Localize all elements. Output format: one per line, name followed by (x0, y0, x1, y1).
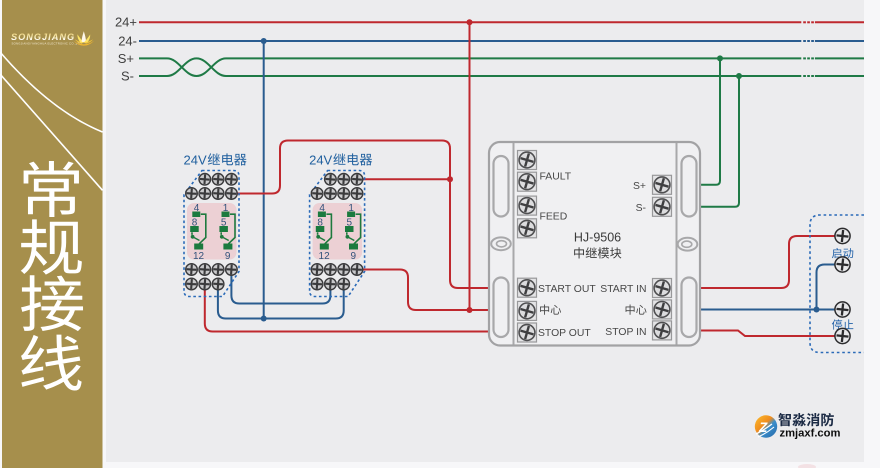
cable continuation break on 24- rail (801, 39, 815, 43)
svg-text:S-: S- (636, 203, 646, 214)
K1 pin 9 pad (223, 244, 232, 250)
U1 terminal STOP OUT (518, 323, 537, 342)
svg-text:STOP IN: STOP IN (605, 327, 646, 338)
svg-text:SONGJIANG: SONGJIANG (11, 32, 75, 42)
svg-text:S+: S+ (118, 51, 134, 66)
K2 top terminal row 2 (311, 188, 363, 200)
svg-text:SONGJIANG/YANGHUA ELECTRONIC C: SONGJIANG/YANGHUA ELECTRONIC CO.,LTD (12, 42, 82, 46)
svg-text:HJ-9506: HJ-9506 (574, 231, 621, 245)
button box dashed outline (810, 215, 864, 353)
K2 bottom terminal row 2 (311, 278, 349, 290)
U1 right mounting ear (678, 238, 698, 251)
wire module START IN to start button (700, 236, 835, 288)
junction stop/start common (814, 307, 820, 313)
wire S- signal rail (twisted pair) (139, 58, 864, 76)
U1 name 中继模块 (574, 247, 621, 258)
K1 dashed component outline (184, 171, 239, 297)
svg-text:START IN: START IN (600, 284, 646, 295)
K1 bottom terminal row 2 (186, 278, 224, 290)
K2 dashed component outline (310, 171, 365, 297)
relay K1 24V relay component (184, 152, 247, 296)
K2 pin 9 pad (349, 244, 358, 250)
wire 24+ drop to module (469, 22, 471, 310)
svg-text:1: 1 (348, 203, 354, 214)
wire relay K1 coil+ to module START OUT (231, 141, 489, 289)
U1 terminal STOP IN (653, 321, 672, 340)
junction on S- rail (736, 73, 742, 79)
K2 pin 8 pad (316, 226, 325, 232)
sidebar title char 接 (21, 275, 83, 331)
svg-text:9: 9 (351, 251, 357, 262)
K2 pin 4 pad (318, 212, 326, 218)
K1 contact wire 1-9 (228, 214, 235, 244)
K1 pin 1 pad (222, 212, 230, 218)
svg-text:STOP OUT: STOP OUT (538, 328, 591, 339)
zmjaxf site logo name 智淼消防 (778, 413, 833, 426)
module U1 HJ-9506 repeater module (489, 142, 700, 346)
K2 pinout diagram body (313, 203, 363, 260)
K2 pin 1 pad (347, 212, 355, 218)
relay K2 24V relay component (309, 152, 372, 296)
svg-text:12: 12 (319, 251, 331, 262)
faint watermark remnant (798, 464, 816, 468)
svg-text:S+: S+ (633, 181, 646, 192)
svg-text:START OUT: START OUT (538, 284, 596, 295)
junction on S+ rail (717, 55, 723, 61)
start button terminal + (835, 228, 850, 243)
U1 left flange divider (513, 143, 515, 345)
cable continuation break on S- rail (801, 74, 815, 78)
wire relay K1 bottom to module STOP OUT (205, 284, 489, 332)
sidebar decorative curve 2 (0, 74, 103, 190)
svg-text:8: 8 (192, 218, 198, 229)
K2 bottom terminal row 1 (311, 264, 363, 276)
stop button terminal - (835, 328, 850, 343)
U1 bottom-left slot (494, 278, 509, 338)
wire branch relay K2 top to START OUT net (357, 178, 450, 180)
sidebar title char 线 (21, 335, 82, 391)
svg-text:24+: 24+ (115, 15, 137, 30)
wire relay K2 bottom to module center(+24V) (357, 270, 489, 311)
zmjaxf site logo icon (755, 415, 777, 437)
U1 terminal center out (518, 301, 537, 320)
sidebar title char 规 (21, 219, 82, 274)
K1 pin 5 pad (219, 226, 228, 232)
U1 terminal START IN (653, 279, 672, 298)
wire 24- drop to relay coils (263, 41, 265, 319)
U1 top-right slot (682, 156, 697, 217)
K1 pinout diagram body (187, 203, 237, 260)
cable continuation break on S+ rail (801, 56, 815, 60)
U1 bottom-right slot (682, 278, 697, 338)
svg-text:24-: 24- (118, 33, 137, 48)
wire S+ drop to module (700, 58, 720, 184)
company sidebar panel (2, 0, 103, 468)
svg-text:9: 9 (225, 251, 231, 262)
wire S- drop to module (700, 76, 739, 207)
svg-text:8: 8 (317, 218, 323, 229)
wire branch to start button return (817, 265, 836, 310)
U1 label center out 中心 (540, 304, 561, 314)
wire 24- power rail (139, 40, 864, 42)
svg-text:5: 5 (347, 218, 353, 229)
cable continuation break on 24+ rail (801, 20, 815, 24)
junction on 24+ rail (467, 19, 473, 25)
U1 left mounting ear (491, 237, 511, 250)
K2 value label 24V继电器 (309, 152, 372, 167)
U1 terminal FAULT+ (518, 151, 537, 170)
svg-text:4: 4 (194, 203, 200, 214)
SONGJIANG lotus icon (73, 31, 94, 45)
K1 pin 8 pad (190, 226, 199, 232)
start/stop button box (dashed) (810, 215, 864, 353)
K1 contact wire 4-12 (199, 214, 206, 244)
U1 terminal S- (653, 197, 672, 216)
svg-text:FEED: FEED (540, 212, 568, 223)
svg-text:4: 4 (319, 203, 325, 214)
junction START OUT net (447, 176, 453, 182)
K2 pin 5 pad (345, 226, 354, 232)
junction on 24- rail (261, 38, 267, 44)
svg-text:zmjaxf.com: zmjaxf.com (780, 428, 841, 440)
K1 top terminal row 2 (186, 188, 238, 200)
stop button terminal + (835, 302, 850, 317)
K1 value label 24V继电器 (184, 152, 247, 167)
U1 module body (489, 142, 700, 346)
U1 right flange divider (676, 143, 678, 345)
K1 armature pivot 8 (191, 232, 193, 235)
U1 terminal FEED+ (518, 196, 537, 215)
U1 terminal S+ (653, 175, 672, 194)
U1 terminal FAULT- (518, 172, 537, 191)
start button label 启动 (832, 248, 853, 258)
svg-text:1: 1 (223, 203, 229, 214)
wire 24+ power rail (139, 21, 864, 23)
K2 armature pivot 5 (346, 232, 348, 235)
K1 top terminal row 1 (199, 174, 237, 186)
wire relay K1 to relay K2 link A (231, 270, 330, 304)
K2 top terminal row 1 (325, 174, 363, 186)
svg-text:FAULT: FAULT (540, 171, 572, 182)
U1 terminal center in (653, 300, 672, 319)
stop button label 停止 (832, 319, 853, 329)
svg-text:S-: S- (121, 68, 134, 83)
sidebar title char 常 (24, 161, 79, 217)
svg-text:24V: 24V (309, 152, 332, 167)
sidebar decorative curve 1 (0, 52, 103, 132)
U1 terminal START OUT (518, 278, 537, 297)
wire module STOP IN to stop button (700, 331, 835, 337)
K1 armature pivot 5 (220, 232, 222, 235)
junction 24- tap (261, 316, 267, 322)
wire module center to stop button common (700, 309, 835, 311)
K2 armature pivot 8 (317, 232, 319, 235)
U1 label center in 中心 (626, 304, 647, 314)
start button terminal - (835, 257, 850, 272)
K1 bottom terminal row 1 (186, 264, 238, 276)
K2 contact wire 1-9 (354, 214, 361, 244)
svg-text:5: 5 (221, 218, 227, 229)
K1 pin 12 pad (194, 244, 203, 250)
junction 24+ to center wire (467, 307, 473, 313)
svg-text:12: 12 (193, 251, 205, 262)
svg-text:24V: 24V (184, 152, 207, 167)
K1 pin 4 pad (192, 212, 200, 218)
wire S+ signal rail (twisted pair) (139, 58, 864, 76)
K2 pin 12 pad (320, 244, 329, 250)
wire relay K1 to relay K2 link B with 24- tap (218, 284, 344, 319)
K2 contact wire 4-12 (325, 214, 332, 244)
U1 terminal FEED- (518, 219, 537, 238)
U1 top-left slot (494, 156, 509, 217)
